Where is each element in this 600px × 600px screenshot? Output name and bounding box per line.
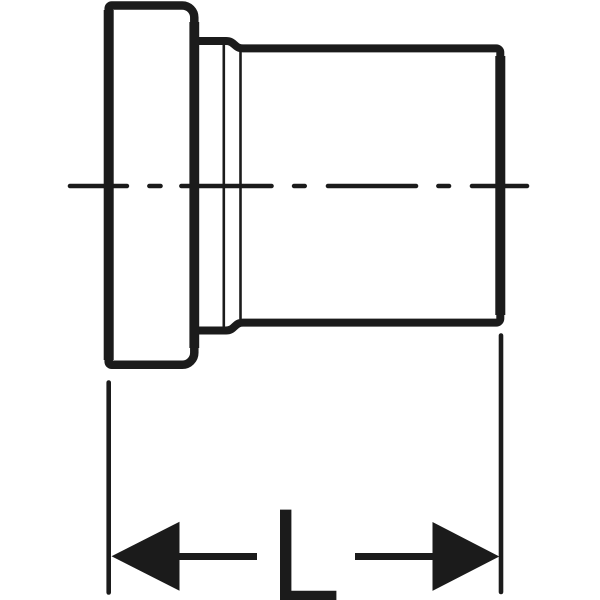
- label L (dimension letter, clipped at page bottom): [280, 510, 336, 600]
- flange right edge thickening: [189, 22, 199, 348]
- body right edge thickening: [495, 56, 505, 315]
- dimension extension line right: [499, 336, 504, 593]
- dimension arrow left: [112, 522, 180, 591]
- dimension extension line left: [106, 383, 111, 593]
- dimension shaft left: [179, 553, 257, 560]
- flange left edge thickening: [104, 10, 114, 360]
- flange (left collar of sleeve coupling, rounded rectangle outline): [109, 6, 195, 365]
- socket body outline (spigot profile with neck-down S-curves): [194, 41, 500, 331]
- weld-zone thin line 2: [239, 52, 242, 319]
- dimension arrow right: [433, 522, 500, 591]
- centerline (dash-dot axis): [70, 184, 527, 189]
- weld-zone thin line 1: [223, 45, 226, 328]
- dimension shaft right: [355, 553, 433, 560]
